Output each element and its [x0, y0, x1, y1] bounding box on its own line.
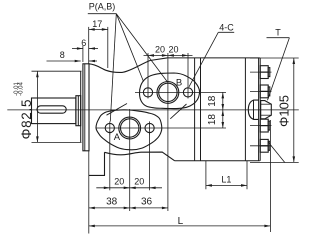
end cap face line 2	[259, 58, 261, 161]
port A inner circle	[121, 119, 139, 137]
dim L line	[89, 225, 271, 227]
housing port boss edge near A	[107, 104, 128, 116]
end cap face line 1	[258, 58, 260, 161]
bolt hole B-left	[143, 88, 152, 97]
svg-text:6: 6	[81, 38, 86, 48]
dim 20|20 top ext right through hole B-right	[187, 53, 189, 99]
bolt hole A-right vertical crosshair	[149, 121, 151, 134]
leader T to check valve plug	[268, 38, 290, 101]
dim 6 ext left	[82, 46, 84, 62]
housing port boss edge near B	[170, 104, 186, 119]
shaft shoulder	[76, 96, 81, 126]
svg-text:B: B	[176, 77, 182, 88]
dim L1 ext left	[205, 161, 207, 190]
svg-text:18: 18	[207, 114, 218, 126]
dim 38|36 line	[89, 207, 168, 209]
dim 17 ext left	[88, 27, 90, 64]
body joint line 2	[200, 58, 202, 161]
dim 18|18 arrows	[222, 92, 225, 98]
keyway slot	[37, 106, 66, 113]
dim L arrows	[89, 225, 95, 228]
dim L1 arrows	[206, 184, 212, 187]
end cap bolt 4	[260, 139, 268, 145]
svg-text:20: 20	[155, 45, 165, 55]
label 4-C underline	[218, 31, 234, 33]
dim phi105 arrows	[293, 58, 296, 64]
svg-text:17: 17	[92, 19, 102, 29]
dim 20|20 top ext left through hole B-left	[147, 53, 149, 99]
housing bottom edge	[175, 160, 260, 162]
dim 6 line arrows	[72, 48, 83, 50]
dim 20|20 bottom ext right	[149, 132, 151, 190]
check valve plug hex head	[261, 101, 272, 119]
svg-text:20: 20	[168, 45, 178, 55]
dim 20|20 bottom line	[96, 187, 162, 189]
dim 17 line	[89, 28, 108, 30]
dim 18|18 line	[222, 92, 224, 128]
body joint line 1	[194, 58, 196, 161]
svg-text:T: T	[275, 28, 281, 38]
dim 38|36 arrows	[89, 207, 95, 210]
svg-text:L: L	[178, 216, 184, 227]
leader P(A,B) to flange lobe edge	[116, 14, 143, 82]
dim 20|20 bottom ext left	[109, 132, 111, 190]
bolt hole A-left vertical crosshair	[109, 121, 111, 134]
dim L ext right	[269, 120, 271, 232]
dim phi105 line	[293, 58, 295, 162]
dim 17 ext right	[107, 27, 109, 68]
dim 20|20 bottom ext mid port A vertical centerline	[129, 109, 131, 211]
port B horizontal centerline	[135, 91, 226, 93]
lower mounting tab	[89, 152, 105, 175]
mounting flange plate	[83, 64, 89, 151]
dim phi82.5 arrows	[36, 71, 39, 77]
bolt hole B-right	[183, 88, 192, 97]
svg-text:L1: L1	[221, 175, 231, 185]
bolt hole A-left	[105, 123, 114, 132]
dim 38|36 ext left	[88, 151, 90, 234]
dim phi82.5 ext top	[32, 70, 82, 72]
check valve plug hex facets	[261, 103, 272, 105]
end cap bolt 1	[260, 66, 268, 72]
check valve plug dome	[248, 100, 258, 119]
svg-text:-0.04: -0.04	[18, 82, 24, 96]
port A horizontal centerline	[96, 127, 226, 129]
shoulder inner line	[77, 96, 79, 126]
port flange lobe A outline	[96, 110, 162, 150]
end cap bolt 3	[260, 119, 268, 125]
leader 4-C to bolt hole B-right	[189, 32, 218, 87]
pilot spigot face	[80, 71, 82, 142]
label P(A,B) underline shelf	[88, 13, 117, 15]
port flange lobe B outline	[139, 73, 199, 109]
dim phi82.5 line	[36, 71, 38, 142]
svg-text:Φ82.5: Φ82.5	[19, 99, 34, 140]
dim L1 ext right	[246, 161, 248, 190]
flange inner chamfer line	[84, 64, 86, 151]
svg-text:20: 20	[134, 177, 144, 187]
leader P(A,B) to port A bolt hole	[110, 14, 116, 122]
dim 20|20 top arrows	[148, 54, 154, 57]
housing top edge	[167, 57, 260, 59]
housing neck top outline	[89, 58, 167, 73]
svg-text:38: 38	[106, 197, 118, 208]
housing skirt bottom outline	[105, 152, 175, 161]
port B inner circle	[159, 83, 177, 101]
oblique extension from cap bolt to phi105	[268, 142, 285, 163]
dim phi105 ext top	[250, 57, 299, 59]
end cap bolt 2	[260, 85, 268, 91]
svg-text:4-C: 4-C	[219, 22, 234, 32]
svg-text:18: 18	[207, 95, 218, 107]
svg-text:P(A,B): P(A,B)	[89, 2, 116, 12]
dim 20|20 top ext mid port B vertical centerline	[167, 53, 169, 211]
leader P(A,B) to port B rim	[116, 14, 167, 82]
dim 8 line arrows	[47, 60, 81, 62]
rear joint line	[244, 58, 246, 161]
dim phi105 ext bottom	[250, 161, 299, 163]
svg-text:20: 20	[114, 177, 124, 187]
svg-text:Φ105: Φ105	[277, 95, 292, 127]
dim 17 arrows	[89, 28, 95, 31]
dim phi82.5 ext bottom	[32, 141, 82, 143]
svg-text:36: 36	[141, 197, 153, 208]
svg-text:8: 8	[60, 50, 65, 60]
centerline shaft axis	[7, 109, 299, 111]
dim 20|20 top line	[144, 54, 193, 56]
label T shelf	[267, 37, 290, 39]
bolt hole A-right	[145, 123, 154, 132]
port B outer circle	[157, 82, 179, 104]
dim 20|20 bottom arrows	[104, 187, 110, 190]
check valve plug dome joint	[253, 100, 255, 119]
svg-text:A: A	[114, 132, 121, 143]
dim L1 line	[206, 184, 247, 186]
output shaft	[32, 98, 76, 124]
port A outer circle	[119, 117, 141, 139]
